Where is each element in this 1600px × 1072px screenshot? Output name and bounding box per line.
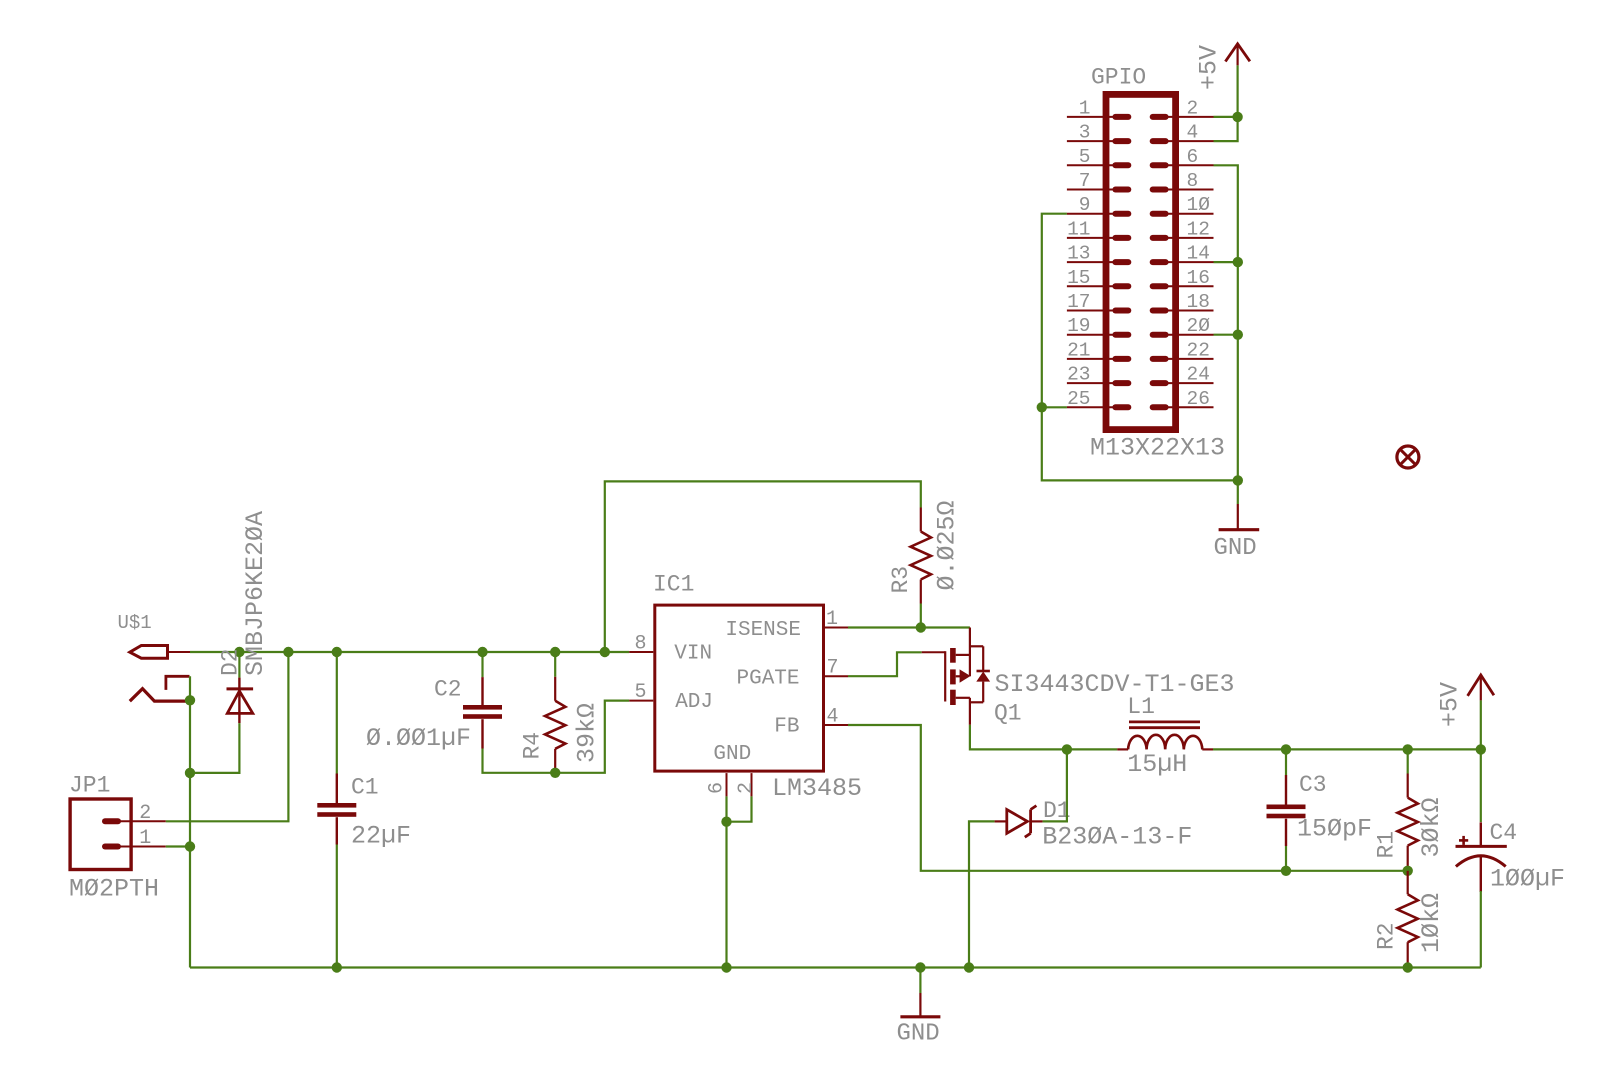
diode D1 B230A-13-F (schottky) — [995, 798, 1193, 852]
svg-text:1ØkΩ: 1ØkΩ — [1417, 893, 1446, 953]
svg-text:Ø.Ø25Ω: Ø.Ø25Ω — [933, 500, 962, 590]
connector JP1 M02PTH — [69, 773, 166, 904]
op-amp/regulator IC1 LM3485 box — [653, 572, 862, 804]
svg-text:2: 2 — [1187, 97, 1199, 119]
svg-text:5: 5 — [634, 681, 646, 704]
junction dot D2 cathode at VIN rail — [234, 647, 244, 657]
junction dot R4 top — [550, 647, 560, 657]
junction dot VIN riser — [600, 647, 610, 657]
wire C3 bottom to FB row — [1285, 846, 1287, 871]
inductor L1 15uH — [1117, 694, 1213, 779]
resistor R1 30kOhm — [1374, 774, 1447, 871]
GPIO pin 5 (left row 3) — [1067, 146, 1128, 168]
wire D1 anode net (to GND rail and left) — [969, 821, 995, 967]
junction dot D2 anode — [185, 768, 195, 778]
diode D2 SMBJP6KE20A — [218, 511, 271, 723]
wire net GND GPIO left (pins 9,25) and bottom run — [1042, 214, 1238, 504]
svg-text:2: 2 — [735, 782, 758, 794]
wire C3 top lead — [1285, 749, 1287, 775]
svg-text:12: 12 — [1187, 218, 1210, 240]
svg-text:15: 15 — [1067, 267, 1090, 289]
GPIO pin 15 (left row 8) — [1067, 267, 1128, 289]
svg-text:1Ø: 1Ø — [1187, 194, 1211, 216]
IC1 pin 8 VIN — [629, 633, 653, 656]
ground symbol GND (bottom) — [897, 968, 941, 1048]
GPIO pin 7 (left row 4) — [1067, 170, 1128, 192]
junction dot C2 top — [477, 647, 487, 657]
wire R1 top lead — [1407, 749, 1409, 773]
svg-text:1ØØµF: 1ØØµF — [1490, 865, 1565, 894]
junction dot JP1 pin2 riser — [283, 647, 293, 657]
svg-text:MØ2PTH: MØ2PTH — [69, 875, 159, 904]
svg-text:+5V: +5V — [1195, 45, 1224, 90]
svg-text:GND: GND — [897, 1021, 940, 1048]
wire C1 top lead from VIN rail — [336, 652, 338, 774]
svg-text:17: 17 — [1067, 291, 1090, 313]
svg-text:4: 4 — [1187, 122, 1199, 144]
svg-text:2: 2 — [139, 802, 151, 825]
svg-text:9: 9 — [1079, 194, 1091, 216]
connector GPIO M13X22X13 box — [1090, 65, 1225, 463]
svg-text:FB: FB — [774, 716, 799, 739]
svg-text:11: 11 — [1067, 218, 1090, 240]
svg-text:6: 6 — [1187, 146, 1199, 168]
GPIO pin 26 (right row 13) — [1153, 388, 1214, 410]
svg-text:39kΩ: 39kΩ — [573, 703, 602, 763]
svg-text:R3: R3 — [888, 566, 914, 594]
svg-text:R4: R4 — [520, 732, 546, 760]
svg-text:22µF: 22µF — [351, 822, 411, 851]
wire net GND left vertical x=190 — [189, 676, 191, 967]
wire C4 bottom to GND rail — [1480, 891, 1482, 968]
svg-text:R2: R2 — [1374, 922, 1400, 950]
GPIO pin 18 (right row 9) — [1153, 291, 1214, 313]
svg-text:VIN: VIN — [674, 643, 712, 666]
capacitor C2 0.001uF — [366, 677, 502, 754]
GPIO pin 16 (right row 8) — [1153, 267, 1214, 289]
junction dot pin2/+5V — [1232, 112, 1242, 122]
svg-text:LM3485: LM3485 — [772, 774, 862, 803]
connector U$1 power jack pin symbol — [118, 612, 191, 658]
svg-text:SI3443CDV-T1-GE3: SI3443CDV-T1-GE3 — [995, 670, 1235, 699]
svg-text:7: 7 — [827, 657, 839, 680]
wire C1 bottom to GND rail — [336, 845, 338, 968]
svg-text:3ØkΩ: 3ØkΩ — [1417, 797, 1446, 857]
GPIO pin 10 (right row 5) — [1153, 194, 1214, 216]
svg-text:C1: C1 — [351, 775, 379, 801]
connector U$1 jack switch lever — [130, 689, 189, 702]
svg-text:R1: R1 — [1374, 831, 1400, 859]
svg-text:GPIO: GPIO — [1091, 65, 1146, 91]
svg-text:15µH: 15µH — [1127, 750, 1187, 779]
wire D2 anode to GND vertical — [190, 723, 239, 773]
svg-text:19: 19 — [1067, 315, 1090, 337]
wire net +5V GPIO (pins 2,4 to +5V arrow) — [1214, 65, 1238, 141]
junction dot FB divider — [1403, 866, 1413, 876]
wire JP1 pin2 to VIN rail — [166, 652, 289, 821]
junction dot +5V/C4 — [1476, 744, 1486, 754]
IC1 pin 6 GND — [706, 773, 729, 796]
svg-text:D2: D2 — [218, 648, 244, 676]
GPIO pin 17 (left row 9) — [1067, 291, 1128, 313]
ground symbol GND (GPIO) — [1214, 504, 1260, 562]
GPIO pin 23 (left row 12) — [1067, 364, 1128, 386]
svg-text:25: 25 — [1067, 388, 1090, 410]
GPIO pin 11 (left row 6) — [1067, 218, 1128, 240]
svg-text:PGATE: PGATE — [736, 668, 799, 691]
svg-text:13: 13 — [1067, 243, 1090, 265]
wire C2 bottom / R4 bottom / ADJ net — [483, 701, 630, 773]
wire net switch node right of L1 / +5V rail — [1213, 748, 1481, 750]
GPIO pin 22 (right row 11) — [1153, 339, 1214, 361]
svg-text:3: 3 — [1079, 122, 1091, 144]
GPIO pin 2 (right row 1) — [1153, 97, 1214, 119]
connector U$1 jack sleeve hook — [166, 676, 190, 690]
svg-text:26: 26 — [1187, 388, 1210, 410]
svg-text:SMBJP6KE2ØA: SMBJP6KE2ØA — [241, 511, 270, 676]
wire C2 top lead — [481, 652, 483, 677]
resistor R2 10kOhm — [1374, 871, 1447, 968]
svg-text:GND: GND — [713, 743, 751, 766]
IC1 pin 1 ISENSE — [825, 608, 848, 631]
wire net GND bottom rail — [190, 966, 1481, 968]
svg-text:ADJ: ADJ — [675, 691, 713, 714]
wire C4 top lead from +5V rail — [1480, 749, 1482, 822]
wire R4 top lead — [554, 652, 556, 677]
wire net PGATE to Q1 gate — [848, 652, 922, 676]
GPIO pin 14 (right row 7) — [1153, 243, 1214, 265]
junction dot IC GND at rail — [721, 962, 731, 972]
svg-text:U$1: U$1 — [118, 612, 152, 634]
svg-text:7: 7 — [1079, 170, 1091, 192]
wire D1 cathode up to switch node — [1043, 749, 1067, 821]
GPIO pin 12 (right row 6) — [1153, 218, 1214, 240]
resistor R3 0.025Ohm — [888, 500, 962, 603]
svg-text:C2: C2 — [434, 677, 462, 703]
GPIO pin 6 (right row 3) — [1153, 146, 1214, 168]
svg-text:Ø.ØØ1µF: Ø.ØØ1µF — [366, 724, 471, 753]
junction dot pin25 — [1037, 402, 1047, 412]
wire R3 bottom to ISENSE — [920, 604, 922, 628]
power +5V arrow symbol (GPIO) — [1195, 44, 1250, 90]
junction dot R4 bottom — [550, 768, 560, 778]
wire +5V arrow stem — [1480, 700, 1482, 749]
GPIO pin 21 (left row 11) — [1067, 339, 1128, 361]
svg-text:M13X22X13: M13X22X13 — [1090, 434, 1225, 463]
GPIO pin 13 (left row 7) — [1067, 243, 1128, 265]
svg-text:L1: L1 — [1127, 694, 1155, 720]
svg-text:23: 23 — [1067, 364, 1090, 386]
GPIO pin 1 (left row 1) — [1067, 97, 1128, 119]
junction dot jack lever — [185, 695, 195, 705]
svg-text:1: 1 — [139, 827, 151, 850]
junction dot pin20 — [1233, 330, 1243, 340]
GPIO pin 3 (left row 2) — [1067, 122, 1128, 144]
junction dot R1 top — [1403, 744, 1413, 754]
capacitor C3 150pF — [1267, 772, 1373, 846]
svg-text:C3: C3 — [1299, 772, 1327, 798]
IC1 pin 4 FB — [825, 706, 848, 729]
svg-text:2Ø: 2Ø — [1187, 315, 1211, 337]
wire Q1 drain to switch node — [970, 725, 1117, 750]
junction dot GND symbol stub — [915, 962, 925, 972]
junction dot JP1 pin1 — [185, 841, 195, 851]
wire net VIN loop riser to R3 — [605, 481, 921, 652]
junction dot D1 riser at rail — [964, 962, 974, 972]
capacitor C1 22uF — [317, 774, 411, 851]
GPIO pin 20 (right row 10) — [1153, 315, 1214, 337]
IC1 pin 7 PGATE — [825, 657, 848, 680]
junction dot IC GND join — [721, 817, 731, 827]
GPIO pin 19 (left row 10) — [1067, 315, 1128, 337]
power +5V arrow symbol (output) — [1436, 675, 1494, 727]
GPIO pin 9 (left row 5) — [1067, 194, 1128, 216]
svg-text:16: 16 — [1187, 267, 1210, 289]
junction dot C1 bottom — [332, 962, 342, 972]
svg-text:18: 18 — [1187, 291, 1210, 313]
GPIO pin 24 (right row 12) — [1153, 364, 1214, 386]
junction dot pin14 — [1233, 257, 1243, 267]
svg-text:8: 8 — [1187, 170, 1199, 192]
capacitor C4 100uF (polarized) — [1456, 820, 1566, 894]
GPIO pin 25 (left row 13) — [1067, 388, 1128, 410]
wire JP1 pin1 to GND vertical — [166, 845, 190, 847]
junction dot C3 top — [1281, 744, 1291, 754]
wire IC1 GND pins join — [727, 796, 752, 967]
error marker circle-X — [1397, 446, 1419, 468]
svg-text:24: 24 — [1187, 364, 1210, 386]
svg-text:Q1: Q1 — [994, 701, 1022, 727]
wire D2 cathode to VIN rail — [238, 652, 240, 678]
svg-text:ISENSE: ISENSE — [725, 619, 801, 642]
junction dot D1/switch node — [1062, 744, 1072, 754]
svg-text:1: 1 — [1079, 97, 1091, 119]
GPIO pin 4 (right row 2) — [1153, 122, 1214, 144]
GPIO pin 8 (right row 4) — [1153, 170, 1214, 192]
svg-text:5: 5 — [1079, 146, 1091, 168]
svg-text:B23ØA-13-F: B23ØA-13-F — [1042, 823, 1192, 852]
svg-text:1: 1 — [826, 608, 838, 631]
svg-text:+5V: +5V — [1436, 682, 1465, 727]
svg-text:JP1: JP1 — [69, 773, 110, 799]
svg-text:C4: C4 — [1490, 820, 1518, 846]
resistor R4 39kOhm — [520, 677, 602, 773]
svg-text:14: 14 — [1187, 243, 1210, 265]
IC1 pin 2 GND — [735, 773, 758, 796]
junction dot ISENSE/R3 — [916, 622, 926, 632]
svg-text:22: 22 — [1187, 339, 1210, 361]
wire net ISENSE y=627.5 — [848, 626, 970, 628]
wire net FB y=725 down and right to divider — [848, 725, 1408, 871]
svg-text:GND: GND — [1214, 535, 1257, 562]
svg-text:6: 6 — [706, 782, 729, 794]
svg-text:4: 4 — [827, 706, 839, 729]
junction dot GND net corner — [1233, 475, 1243, 485]
IC1 pin 5 ADJ — [629, 681, 653, 704]
junction dot R2 bottom — [1403, 962, 1413, 972]
wire net GND GPIO right (pins 6,14,20 vertical to lower junction) — [1214, 165, 1238, 480]
transistor Q1 SI3443CDV (P-MOSFET) — [922, 628, 1235, 727]
wire net VIN top rail y=652 — [190, 651, 629, 653]
svg-text:21: 21 — [1067, 339, 1090, 361]
svg-text:8: 8 — [634, 633, 646, 656]
junction dot C1 top — [332, 647, 342, 657]
svg-text:15ØpF: 15ØpF — [1297, 815, 1372, 844]
junction dot C3 bottom/FB — [1281, 866, 1291, 876]
svg-text:IC1: IC1 — [653, 572, 694, 598]
